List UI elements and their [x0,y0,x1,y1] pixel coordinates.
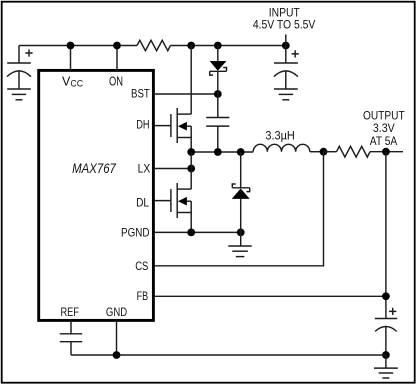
node: VCC junction [67,42,75,50]
resistor R1 [137,40,170,50]
svg-text:GND: GND [106,305,127,319]
capacitor C2 (bootstrap) [206,94,229,152]
node: Q2 source junction [187,229,195,237]
wire: LX node horizontal [191,151,253,153]
wire: ON pin stub [116,46,118,70]
node: L1/R2/CS junction [320,148,328,156]
net label OUTPUT [363,108,405,148]
svg-text:3.3µH: 3.3µH [265,129,295,143]
resistor R2 (current sense) [324,146,404,157]
capacitor C4 (output electrolytic) [375,308,397,355]
node: Q1 drain junction [187,42,195,50]
wire: CS sense line [155,152,324,266]
node: FB junction [382,292,390,300]
node: D2 anode junction [237,229,245,237]
svg-text:4.5V TO 5.5V: 4.5V TO 5.5V [253,18,316,32]
node: output junction [382,148,390,156]
wire: BST [155,93,218,95]
capacitor C1 (input bypass, electrolytic) [7,46,33,90]
svg-text:ON: ON [109,74,123,88]
node: C4 bottom junction [382,351,390,359]
capacitor C3 (input electrolytic) [274,46,299,90]
IC U1 MAX767 [39,70,154,320]
svg-text:DL: DL [136,195,149,209]
wire: Q1 body/source down to LX node [190,126,192,152]
node: D1 anode junction [214,42,222,50]
ground (under D2) [228,246,251,257]
svg-text:PGND: PGND [121,226,150,240]
svg-text:FB: FB [137,289,149,303]
wire: Q2 body/source down to PGND [190,201,192,232]
inductor L1 3.3uH [253,129,323,152]
node: source junction [187,148,195,156]
ground (under C1) [7,89,31,100]
node: BST junction [214,90,222,98]
node: C2 bottom junction [214,148,222,156]
net label INPUT [253,5,316,45]
ground (under C4) [374,355,398,378]
svg-text:REF: REF [60,305,79,319]
wire: bottom ground rail [71,354,386,356]
wire: Q1 drain to rail [190,46,192,115]
svg-text:AT 5A: AT 5A [370,134,398,148]
wire: FB [155,295,386,297]
node: ON junction [113,42,121,50]
capacitor C5 (REF bypass) [60,320,82,355]
diode D1 (bootstrap Schottky) [210,46,227,95]
transistor Q1 (high-side NMOS) [171,108,191,143]
wire: DH [155,125,171,127]
node: GND junction [113,351,121,359]
wire: PGND [155,231,241,233]
svg-text:MAX767: MAX767 [72,161,116,176]
transistor Q2 (low-side NMOS) [171,183,191,218]
wire: DL [155,200,171,202]
wire: VCC pin stub [70,46,72,70]
node: input cap junction [282,42,290,50]
node: D2 cathode junction [237,148,245,156]
diode D2 (freewheel Schottky) [232,152,250,246]
wire: LX pin [155,168,191,170]
node: LX junction [187,165,195,173]
svg-text:DH: DH [136,118,149,132]
svg-text:BST: BST [131,86,150,100]
ground (under C3) [274,89,298,100]
wire: output column down to C4 [385,152,387,319]
svg-text:LX: LX [138,162,151,176]
svg-text:CS: CS [135,259,148,273]
wire: GND pin to bottom rail [116,320,118,355]
wire: LX node down to Q2 drain [190,152,192,189]
wire: top VCC rail [19,45,286,47]
